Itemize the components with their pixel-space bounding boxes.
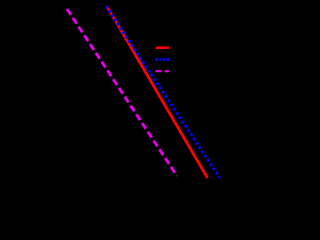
legend sample red solid xyxy=(156,46,169,49)
legend sample magenta dashed xyxy=(155,70,168,72)
legend sample blue dotted xyxy=(155,58,169,61)
red solid data line xyxy=(107,7,208,179)
blue dotted data line xyxy=(106,6,220,178)
magenta dashed data line xyxy=(67,9,177,176)
